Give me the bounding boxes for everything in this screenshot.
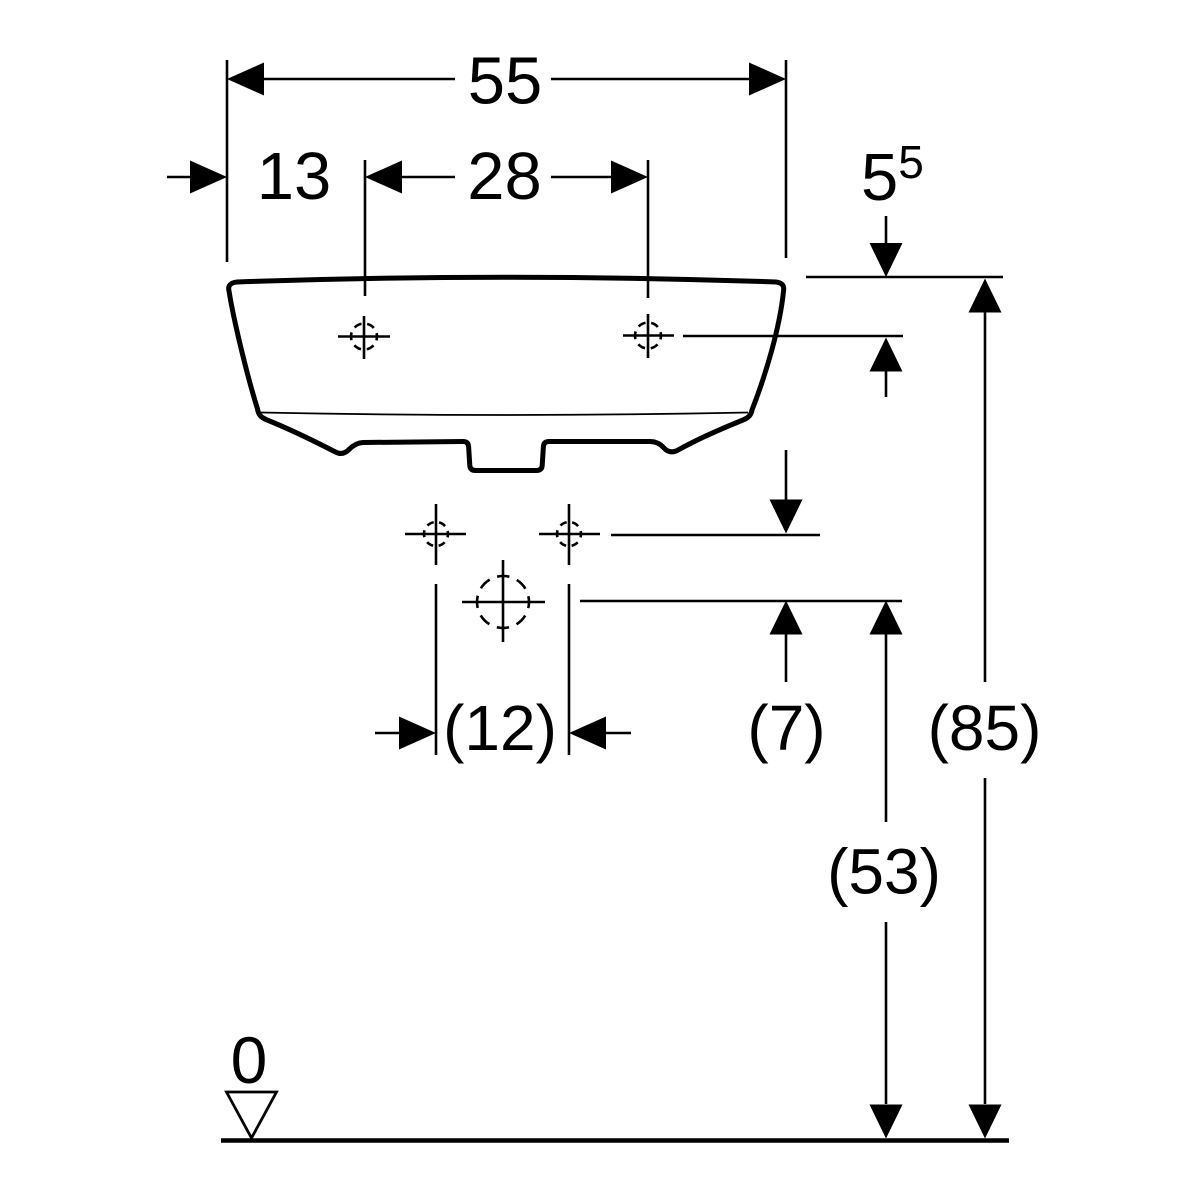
svg-text:55: 55	[468, 44, 543, 119]
svg-text:28: 28	[467, 139, 542, 214]
svg-text:0: 0	[231, 1023, 268, 1097]
svg-text:13: 13	[257, 139, 332, 214]
svg-text:(7): (7)	[747, 692, 825, 764]
svg-text:(85): (85)	[928, 692, 1042, 764]
svg-text:(53): (53)	[827, 836, 941, 908]
svg-text:(12): (12)	[443, 692, 557, 764]
